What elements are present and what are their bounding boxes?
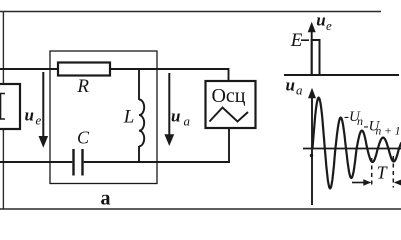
capacitor C plates (72, 149, 74, 176)
svg-text:u: u (286, 76, 295, 95)
svg-text:а: а (101, 188, 111, 210)
pulse glyph in generator (1, 94, 6, 120)
svg-text:Осц: Осц (211, 85, 245, 107)
graph ue: time baseline (284, 74, 399, 76)
E tick (301, 39, 309, 41)
svg-text:u: u (316, 10, 325, 29)
wire top (0, 68, 229, 70)
pulse E (312, 40, 320, 75)
graph ua: vertical axis (311, 96, 313, 205)
inductor L (138, 69, 140, 100)
wire bottom right (84, 161, 229, 163)
svg-text:n: n (357, 114, 363, 128)
generator box (cut off at left edge) (0, 84, 20, 129)
arrow u_a (168, 73, 170, 135)
dim arrow right (400, 182, 401, 184)
dim arrow left (352, 182, 364, 184)
oscilloscope screen zigzag (210, 108, 249, 122)
wire to oscilloscope top (228, 68, 230, 81)
svg-text:a: a (184, 113, 191, 128)
page left border (2, 11, 4, 209)
svg-text:T: T (377, 162, 389, 182)
svg-text:a: a (296, 82, 303, 97)
svg-text:L: L (123, 107, 135, 128)
wire bottom left (0, 161, 72, 163)
svg-text:E: E (290, 30, 303, 51)
wire to oscilloscope bottom (228, 128, 230, 163)
enclosure box (50, 51, 157, 184)
svg-text:n + 1: n + 1 (376, 126, 401, 138)
graph ue: vertical axis (311, 30, 313, 75)
graph ua: time axis (303, 148, 401, 150)
svg-text:C: C (77, 128, 90, 148)
svg-text:R: R (76, 76, 89, 97)
damped oscillation curve (313, 98, 401, 189)
dashed line T right (392, 156, 394, 188)
dashed line T left (371, 158, 373, 188)
svg-text:e: e (36, 113, 42, 128)
arrow u_e (42, 72, 44, 137)
page bottom rule (0, 208, 401, 210)
axis dot (310, 154, 313, 157)
svg-text:e: e (326, 18, 332, 33)
svg-text:u: u (25, 106, 34, 125)
resistor R (58, 63, 110, 76)
svg-text:u: u (171, 106, 180, 125)
page top rule (0, 11, 381, 13)
oscilloscope box U1 (206, 81, 256, 128)
